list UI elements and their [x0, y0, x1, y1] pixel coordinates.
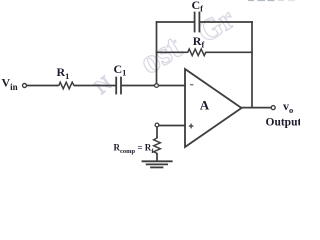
svg-text:Vin: Vin [2, 76, 18, 92]
right vertical feedback wire [251, 22, 253, 108]
node: inverting input junction [155, 84, 159, 88]
resistor Rcomp (vertical) [154, 137, 161, 154]
wire Rf branch left [157, 51, 187, 53]
plus sign at noninverting input [189, 124, 194, 129]
svg-text:ost: ost [133, 28, 188, 82]
watermark [91, 2, 240, 98]
wire R1 to C1 [76, 85, 116, 87]
minus sign at inverting input [190, 84, 193, 86]
top-right cropped text smudge [248, 0, 295, 2]
svg-text:vo: vo [283, 99, 293, 115]
svg-text:Rcomp = Rf: Rcomp = Rf [114, 143, 155, 155]
output terminal circle [271, 106, 275, 110]
svg-text:Cf: Cf [192, 0, 204, 14]
wire C1 to op-amp inverting input [122, 85, 185, 87]
input terminal circle [23, 84, 27, 88]
wire input to R1 [27, 85, 57, 87]
wire top C_f branch [157, 21, 195, 23]
node: noninverting input junction [155, 123, 159, 127]
ground [143, 160, 172, 162]
wire Cf to right vertical [200, 21, 252, 23]
capacitor Cf [194, 13, 196, 32]
svg-text:C1: C1 [114, 62, 127, 78]
svg-text:Output: Output [266, 117, 301, 129]
wire Rf to right vertical [207, 51, 252, 53]
wire junction down to Rcomp [156, 127, 158, 137]
op-amp A [185, 69, 242, 147]
svg-text:A: A [200, 98, 210, 113]
capacitor C1 [115, 78, 117, 94]
resistor R1 [57, 82, 76, 89]
wire junction to + input [159, 125, 185, 127]
svg-text:R1: R1 [57, 65, 70, 81]
wire junction up to feedback [156, 22, 158, 84]
wire Rcomp to ground [156, 154, 158, 161]
output wire [242, 107, 272, 109]
resistor Rf [186, 49, 207, 56]
